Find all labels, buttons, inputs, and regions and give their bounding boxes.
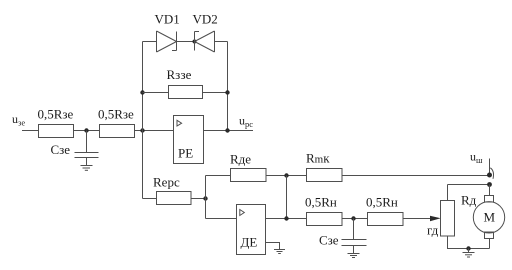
capacitor Сзе (right) — [353, 219, 355, 240]
wire motor bottom — [489, 239, 491, 249]
wire vertical to ДЕ output row — [286, 176, 288, 219]
motor M circle — [473, 202, 504, 233]
wire to uш terminal — [342, 175, 490, 177]
wire Rерс row entry — [143, 198, 157, 200]
wire branch to motor node — [448, 184, 490, 186]
node uрс — [225, 128, 229, 132]
wire input stub uзе — [22, 130, 38, 132]
resistor 0,5Rн (first) — [307, 213, 343, 226]
wire with arrow into гд — [403, 218, 431, 220]
zener diode VD2 — [194, 32, 196, 51]
wire motor top — [489, 185, 491, 196]
svg-text:ДЕ: ДЕ — [241, 235, 258, 250]
wire to Rде — [206, 175, 231, 177]
svg-text:0,5Rзе: 0,5Rзе — [38, 107, 74, 122]
svg-text:М: М — [484, 210, 496, 225]
resistor Rтк — [307, 169, 343, 182]
op-amp block РЕ — [174, 116, 204, 164]
svg-text:Rззе: Rззе — [167, 67, 192, 82]
svg-text:Rде: Rде — [230, 152, 251, 167]
resistor 0,5Rзе (first) — [39, 125, 74, 138]
wire ДЕ output — [266, 218, 307, 220]
resistor Rззе — [169, 86, 203, 99]
wire — [74, 130, 100, 132]
wire ДЕ input — [206, 218, 237, 220]
rheostat гд — [441, 201, 455, 237]
wire — [266, 175, 307, 177]
motor bottom brush — [485, 232, 494, 239]
wire гд bottom — [448, 236, 490, 249]
node (capacitor tap) — [351, 216, 355, 220]
wire PE output — [204, 130, 254, 132]
wire — [191, 198, 206, 200]
node (capacitor tap) — [84, 128, 88, 132]
node (diode junction) — [193, 40, 197, 44]
wire — [342, 218, 368, 220]
capacitor Сзе (left) — [86, 131, 88, 153]
ground (bottom) — [468, 249, 470, 253]
wire ДЕ ground stub — [266, 243, 280, 250]
wire top rail right — [215, 41, 228, 43]
node Rде/Rтк junction — [284, 173, 288, 177]
svg-text:0,5Rзе: 0,5Rзе — [98, 107, 134, 122]
ground (ДЕ) — [274, 249, 285, 251]
svg-text:гд: гд — [427, 223, 439, 238]
resistor 0,5Rзе (second) — [100, 125, 135, 138]
node bottom ground — [466, 246, 470, 250]
node Rззе right — [225, 90, 229, 94]
wire — [203, 92, 228, 94]
zener diode VD1 — [156, 31, 158, 52]
svg-text:Сзе: Сзе — [51, 142, 71, 157]
svg-text:0,5Rн: 0,5Rн — [366, 195, 398, 210]
svg-text:Сзе: Сзе — [319, 233, 339, 248]
wire right column — [227, 42, 229, 132]
ground (under left Сзе) — [86, 158, 88, 166]
svg-text:0,5Rн: 0,5Rн — [305, 195, 337, 210]
svg-text:Rmк: Rmк — [306, 151, 330, 166]
wire vertical branch — [205, 176, 207, 219]
ground (under right Сзе) — [353, 246, 355, 254]
svg-text:VD2: VD2 — [193, 12, 218, 27]
svg-text:Rерс: Rерс — [153, 175, 180, 190]
svg-text:РЕ: РЕ — [178, 146, 193, 161]
resistor Rерс — [157, 192, 192, 205]
svg-text:Rд: Rд — [461, 193, 477, 208]
wire left column — [142, 42, 144, 199]
terminal uш — [489, 159, 491, 176]
resistor Rде — [231, 169, 267, 182]
op-amp block ДЕ — [237, 205, 266, 255]
node branch — [487, 182, 492, 187]
wire — [143, 92, 169, 94]
wire top rail left — [143, 41, 157, 43]
wire between diodes — [177, 41, 195, 43]
node (left column / main row) — [140, 128, 144, 132]
wire гд top stub — [447, 185, 449, 201]
node Rерс output — [203, 196, 207, 200]
resistor 0,5Rн (second) — [368, 213, 404, 226]
node ДЕ output row — [284, 216, 288, 220]
node Rззе left — [140, 90, 144, 94]
svg-text:VD1: VD1 — [155, 12, 180, 27]
wire to PE input — [135, 130, 174, 132]
motor top brush — [485, 196, 494, 203]
